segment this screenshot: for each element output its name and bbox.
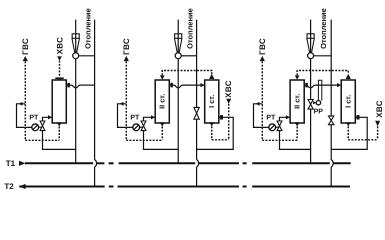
section3: ГВС outlet arrow at HX bottom	[295, 122, 300, 126]
section2: impulse flow arrow	[120, 102, 124, 106]
section3: primary outlet pipe with hop over riser	[304, 84, 306, 86]
section1: heating return riser lower part to Т2	[94, 167, 96, 187]
svg-text:ХВС: ХВС	[375, 100, 384, 118]
section1: pipe from РТ valve to heat exchanger inlet	[43, 117, 76, 149]
svg-text:II ст.: II ст.	[158, 94, 167, 109]
svg-text:Отопление: Отопление	[186, 8, 195, 49]
pipe Т2 return main: section3	[252, 186, 350, 188]
section2: arrow out of stage I top	[209, 74, 214, 79]
section1: elevator suction pipe	[79, 55, 95, 57]
svg-text:I ст.: I ст.	[344, 95, 353, 108]
section2: РТ control valve	[141, 121, 146, 131]
section1: wide arrow into HX top	[55, 77, 63, 79]
svg-text:Отопление: Отопление	[319, 8, 328, 49]
svg-text:ХВС: ХВС	[55, 37, 64, 55]
section1: ХВС flow arrow down	[57, 56, 62, 60]
section3: elevator suction pipe	[314, 55, 332, 57]
Т2 flow arrow	[19, 184, 25, 189]
section3: pipe from РТ valve to heat exchanger inlet	[280, 117, 311, 149]
section3: ХВС flow arrow down	[375, 121, 380, 127]
section1: heat exchanger (single stage)	[52, 80, 66, 123]
section3: РТ control valve	[277, 121, 282, 131]
section1: ГВС dashed pipe down	[24, 61, 26, 140]
section2: arrow into stage II top	[160, 75, 165, 79]
section3: elevator (jet pump)	[307, 34, 315, 59]
section1: impulse flow arrow	[19, 102, 23, 106]
pipe Т2 break dash	[109, 186, 114, 188]
section1: primary inlet arrow into HX	[48, 115, 52, 119]
section3: primary inlet arrow into stage I	[337, 83, 341, 87]
section3: regulator РР actuator	[316, 101, 320, 105]
section3: heating return riser upper part	[330, 20, 332, 160]
section3: regulator РТ	[269, 124, 276, 131]
section3: РР valve on supply riser	[308, 100, 313, 110]
section3: РТ to valve link	[275, 126, 278, 128]
section3: arrow into stage II top	[295, 75, 300, 79]
section2: stage I primary outlet pipe to return riser	[197, 117, 234, 149]
section3: dashed drop from HX bottom	[296, 127, 298, 141]
svg-text:РТ: РТ	[266, 114, 276, 121]
section3: valve on return riser	[329, 116, 334, 125]
section1: РТ to valve link	[38, 126, 41, 128]
section3: ГВС dashed pipe down	[261, 61, 263, 140]
section3: pipe hop under heating riser	[306, 85, 315, 88]
section1: РТ sensor impulse line	[17, 104, 32, 128]
section2: fitting on stage I outlet	[220, 115, 223, 119]
section3: РР impulse tube	[318, 80, 321, 100]
section2: dashed ХВС bottom run	[212, 139, 229, 141]
section2: dashed drop below stage I	[211, 126, 213, 139]
svg-text:ГВС: ГВС	[122, 38, 131, 55]
section1: heating return riser upper part	[94, 20, 96, 160]
section2: ГВС dashed pipe down	[125, 61, 127, 140]
section2: heat exchanger I stage	[205, 80, 219, 123]
section2: valve on return riser	[194, 107, 199, 119]
section1: РТ control valve	[40, 121, 45, 131]
section2: ГВС dashed pipe bottom run	[126, 139, 162, 141]
section3: heating return riser lower part to Т2	[330, 167, 332, 187]
section1: ГВС dashed pipe bottom run	[25, 139, 59, 141]
section3: fitting on stage I outlet	[357, 115, 360, 119]
section1: dashed drop from HX bottom	[58, 127, 60, 141]
section3: ГВС flow arrow up	[260, 56, 265, 61]
section2: heating supply riser (to elevator)	[177, 20, 179, 164]
pipe Т2 break dash	[243, 186, 247, 188]
section3: dashed drop below stage I	[347, 126, 349, 139]
pipe Т1 supply main: section3	[252, 162, 330, 164]
section3: heat exchanger I stage	[341, 80, 355, 123]
section1: regulator РТ	[32, 124, 39, 131]
pipe Т1 break dash	[243, 162, 247, 164]
section3: impulse flow arrow	[256, 102, 260, 106]
section3: arrow at stage I bottom	[346, 122, 351, 126]
section1: ХВС dashed pipe	[59, 61, 61, 77]
section2: ХВС dashed pipe	[228, 104, 230, 140]
section2: primary inlet arrow into HX	[151, 115, 155, 119]
pipe Т2 return main: section2	[118, 186, 239, 188]
section3: ХВС dashed pipe	[377, 126, 379, 139]
pipe Т1 supply main: section2	[119, 162, 196, 164]
svg-text:ГВС: ГВС	[258, 38, 267, 55]
section3: heating supply riser (to elevator)	[310, 20, 312, 164]
section1: return riser hop across Т1	[95, 160, 97, 167]
section2: heating return riser upper part	[196, 20, 198, 160]
svg-text:РР: РР	[314, 108, 324, 115]
section2: РТ sensor impulse line	[118, 104, 133, 128]
svg-text:ХВС: ХВС	[224, 80, 233, 98]
pipe Т1 break dash	[109, 162, 114, 164]
pipe Т1 supply main: section1	[25, 162, 93, 164]
svg-text:I ст.: I ст.	[207, 95, 216, 108]
section3: return riser hop across Т1	[331, 160, 333, 167]
Т1 flow arrow	[19, 161, 25, 166]
section2: dotted inter-stage secondary link	[162, 71, 212, 76]
svg-text:Отопление: Отопление	[83, 8, 92, 49]
svg-text:Т2: Т2	[4, 182, 14, 191]
svg-text:ГВС: ГВС	[21, 38, 30, 55]
section3: РТ sensor impulse line	[254, 104, 269, 128]
section2: heating return riser lower part to Т2	[196, 167, 198, 187]
section3: dotted inter-stage secondary link	[297, 71, 348, 76]
section3: dashed ХВС bottom run	[348, 139, 377, 141]
section1: primary outlet pipe with hop over riser	[66, 84, 71, 86]
section1: heating supply riser (to elevator)	[75, 20, 77, 164]
pipe Т2 return main: section1	[19, 186, 104, 188]
section2: РТ to valve link	[139, 126, 142, 128]
section1: ГВС outlet arrow at HX bottom	[57, 122, 62, 126]
section2: primary outlet pipe with hop over riser	[169, 84, 173, 86]
section1: pipe hop under heating riser	[71, 85, 80, 88]
section2: pipe hop under heating riser	[174, 85, 183, 88]
section2: pipe from РТ valve to heat exchanger inlet	[144, 117, 179, 149]
section3: primary inlet arrow into HX	[286, 115, 290, 119]
section2: dashed drop from HX bottom	[161, 127, 163, 141]
section3: inter-stage primary pipe	[315, 84, 337, 86]
section2: elevator suction pipe	[181, 55, 196, 57]
section2: fitting on HX primary outlet	[171, 83, 173, 88]
section2: inter-stage primary pipe	[183, 84, 201, 86]
section1: fitting on HX primary outlet	[68, 83, 70, 88]
section3: ГВС dashed pipe bottom run	[262, 139, 297, 141]
section1: elevator (jet pump)	[72, 34, 80, 59]
section2: regulator РТ	[133, 124, 140, 131]
section1: ГВС flow arrow up	[23, 56, 28, 61]
section1: outlet pipe to return riser	[80, 84, 95, 86]
section2: elevator (jet pump)	[174, 34, 182, 59]
section3: heat exchanger II stage	[290, 80, 304, 123]
section3: stage I primary outlet pipe to return riser	[331, 117, 367, 149]
section2: heat exchanger II stage	[155, 80, 169, 123]
svg-text:II ст.: II ст.	[293, 94, 302, 109]
svg-text:РТ: РТ	[29, 114, 39, 121]
section3: link arrow to РР actuator	[313, 101, 316, 104]
section2: ГВС flow arrow up	[124, 56, 129, 61]
section2: ХВС flow arrow down	[226, 99, 231, 104]
section3: arrow out of stage I top	[346, 74, 351, 79]
section3: fitting on HX primary outlet	[305, 83, 307, 88]
section2: ГВС outlet arrow at HX bottom	[160, 122, 165, 126]
section2: primary inlet arrow into stage I	[201, 83, 205, 87]
svg-text:РТ: РТ	[130, 114, 140, 121]
svg-text:Т1: Т1	[6, 159, 16, 168]
section2: return riser hop across Т1	[197, 160, 199, 167]
section2: arrow at stage I bottom	[209, 122, 214, 126]
